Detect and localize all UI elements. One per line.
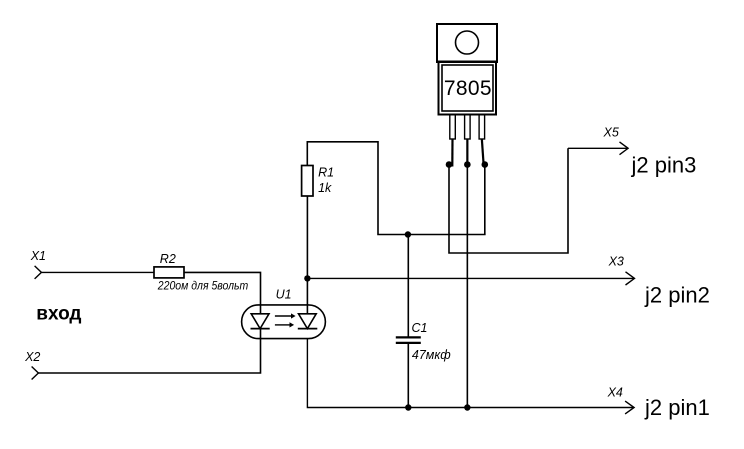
regulator VR1 pin 3	[479, 115, 485, 140]
svg-text:вход: вход	[36, 304, 81, 325]
resistor R2	[154, 267, 184, 278]
svg-text:7805: 7805	[444, 77, 492, 100]
junction C1 bottom on X4	[405, 404, 411, 410]
svg-text:47мкф: 47мкф	[412, 348, 451, 362]
svg-text:X3: X3	[608, 255, 624, 269]
resistor R1	[302, 166, 313, 197]
wire X2 to U1 cathode	[38, 329, 260, 373]
wire R1 top route	[307, 142, 485, 235]
wire pin1 down to j2pin3 route	[449, 148, 568, 253]
wire R2 to U1 anode	[184, 272, 261, 313]
wire pin2 down to j2pin1 line	[466, 165, 468, 408]
regulator VR1 pin 1	[450, 115, 456, 140]
optocoupler U1 light arrow lower	[275, 324, 290, 326]
svg-text:j2 pin3: j2 pin3	[631, 152, 697, 177]
arrow X3	[626, 272, 635, 285]
junction node X3	[304, 275, 310, 281]
wire pin1 to node	[451, 139, 453, 167]
wire X4 terminal line	[307, 339, 633, 408]
svg-text:R1: R1	[318, 166, 334, 180]
wire R1 bottom to U1	[306, 196, 308, 314]
capacitor C1 bottom plate	[396, 342, 421, 344]
svg-text:X5: X5	[603, 126, 619, 140]
arrow X4	[625, 401, 634, 414]
regulator VR1 body outer	[439, 62, 497, 115]
arrow X5	[620, 142, 629, 155]
svg-text:X4: X4	[607, 386, 623, 400]
svg-text:R2: R2	[160, 252, 176, 266]
wire pin3 down to cap node	[484, 165, 486, 235]
svg-text:C1: C1	[412, 321, 428, 335]
junction node R1/C1 top	[405, 231, 411, 237]
wire X5 terminal line	[568, 147, 628, 149]
optocoupler U1 detector bar	[298, 328, 318, 330]
svg-text:1k: 1k	[318, 181, 332, 195]
optocoupler U1 detector triangle	[299, 314, 317, 329]
regulator VR1 mounting hole	[456, 31, 479, 54]
capacitor C1 top plate	[396, 336, 421, 338]
wire pin2 to node	[466, 139, 468, 165]
junction pin3	[482, 161, 489, 168]
connector X2 chevron	[32, 367, 39, 380]
optocoupler U1 body	[242, 305, 326, 339]
optocoupler U1 LED triangle	[251, 314, 269, 329]
junction pin2 on X4	[464, 404, 470, 410]
wire X3 terminal line	[307, 277, 634, 279]
svg-text:220ом для 5вольт: 220ом для 5вольт	[157, 278, 248, 292]
wire pin3 to node	[482, 139, 484, 165]
junction pin1	[446, 161, 453, 168]
svg-text:U1: U1	[276, 287, 292, 301]
optocoupler U1 light arrow upper	[275, 315, 291, 317]
svg-text:X2: X2	[24, 350, 40, 364]
regulator VR1 pin 2	[465, 115, 471, 140]
capacitor C1 bottom wire	[407, 343, 409, 408]
svg-text:j2 pin2: j2 pin2	[644, 282, 710, 307]
junction pin2	[464, 161, 471, 168]
regulator VR1 7805 tab	[437, 24, 497, 62]
optocoupler U1 LED cathode bar	[251, 328, 270, 330]
wire X1 to R2	[41, 271, 154, 273]
capacitor C1 top wire	[407, 235, 409, 338]
svg-text:X1: X1	[30, 249, 46, 263]
regulator VR1 body inner	[442, 65, 493, 111]
connector X1 chevron	[35, 266, 42, 279]
svg-text:j2 pin1: j2 pin1	[644, 395, 710, 420]
